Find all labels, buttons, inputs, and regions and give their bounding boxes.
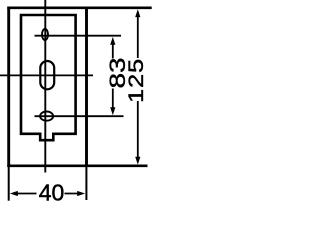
extension line left (40 dim) (8, 167, 10, 201)
centerline small hole (35, 35, 122, 37)
vertical centerline (44, 0, 46, 173)
middle slot (40, 61, 54, 89)
mounting plate outline (21, 15, 76, 140)
dimension 125 line (135, 9, 140, 164)
extension line right (40 dim) (85, 167, 87, 200)
svg-text:40: 40 (39, 179, 65, 205)
svg-text:125: 125 (124, 58, 148, 103)
dimension 40 line (10, 191, 85, 196)
lower oval hole (40, 112, 53, 121)
small slot hole top (42, 29, 48, 40)
outer box (7, 7, 151, 167)
centerline lower hole (35, 115, 124, 117)
centerline middle slot (0, 74, 93, 76)
dimension 83 line (110, 37, 115, 115)
